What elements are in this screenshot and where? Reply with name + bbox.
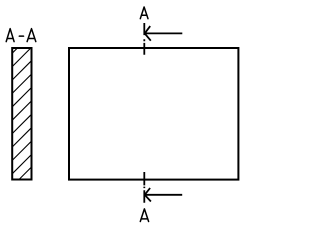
bottom section arrow [145, 188, 183, 202]
top section arrow [145, 26, 183, 41]
large rectangle (part outline) [69, 48, 238, 180]
hatching [12, 48, 31, 180]
bottom cutting plane line (dash-dot) [143, 172, 145, 203]
top label A [140, 7, 148, 19]
section label A-A [6, 29, 36, 42]
top cutting plane line (dash-dot) [143, 23, 145, 55]
section view hatched bar [12, 48, 31, 180]
bottom label A [140, 209, 148, 222]
